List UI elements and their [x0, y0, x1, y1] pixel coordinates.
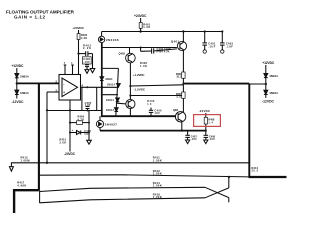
svg-text:+24VDC: +24VDC: [134, 14, 147, 18]
wire bias chain vertical: [116, 68, 119, 116]
svg-text:-24VDC: -24VDC: [199, 109, 211, 113]
svg-text:-: -: [63, 82, 64, 86]
label R412 1.00K: [153, 169, 162, 176]
wire supply column to R403: [78, 30, 80, 34]
capacitor C402 loop top: [79, 53, 86, 55]
label line D: [153, 192, 162, 199]
svg-text:2.2K: 2.2K: [81, 37, 87, 40]
wire sense line B: [39, 175, 249, 177]
resistor R407: [182, 92, 185, 98]
ground below C403a: [85, 70, 89, 74]
wire stub rail to cap line: [140, 48, 142, 52]
svg-text:1N914: 1N914: [20, 91, 29, 95]
node at R-C ladder left: [87, 110, 89, 112]
pot wiper arrow: [10, 163, 12, 167]
wire thin rail to +-12 node right: [249, 83, 265, 85]
wire R401 to +24 rail: [140, 28, 142, 31]
diode CR7 1N914: [264, 90, 268, 94]
svg-text:1.00K: 1.00K: [153, 172, 162, 176]
wire C405 loop right vertical: [96, 87, 98, 110]
svg-text:.1UF: .1UF: [83, 61, 90, 64]
wire C405 loop left vertical: [81, 87, 83, 110]
wire line D vertical to node B: [228, 177, 230, 188]
node gain tap: [46, 162, 48, 164]
svg-text:1.00M: 1.00M: [21, 159, 31, 163]
wire stub below thick corner: [39, 190, 41, 203]
svg-text:4.99K: 4.99K: [17, 183, 26, 187]
wire connector bus to bias chain: [102, 67, 119, 69]
wire C402 right vertical: [92, 54, 94, 69]
node Q401 collector on rail: [182, 30, 184, 32]
capacitor C406: [150, 108, 152, 111]
node bus/neg rail junction: [101, 115, 103, 117]
svg-text:-24VDC: -24VDC: [64, 152, 76, 156]
node +12VDC right: [262, 61, 275, 65]
svg-text:+1.2VDC: +1.2VDC: [133, 73, 145, 77]
label R402 1.0K: [140, 61, 148, 68]
wire sense line C: [40, 187, 205, 191]
wire R404 emitter node down to Q404: [182, 84, 184, 112]
svg-text:1: 1: [71, 61, 73, 65]
svg-text:+: +: [72, 128, 74, 132]
wire Q400 to driver bus thick: [101, 43, 103, 117]
wire feedback line pin3 net horizontal: [47, 110, 102, 112]
svg-text:.1UF: .1UF: [208, 45, 215, 49]
node C405 tap on output line: [86, 86, 88, 88]
transistor Q402 mid upper: [129, 48, 131, 54]
highlight red box R408: [194, 115, 221, 127]
svg-text:1.00K: 1.00K: [153, 159, 162, 163]
svg-text:-1.2VDC: -1.2VDC: [134, 87, 146, 91]
svg-text:GAIN = 1.12: GAIN = 1.12: [14, 15, 45, 20]
wire second rung to bias chain: [102, 94, 118, 96]
node supply/C402 junction: [77, 53, 79, 55]
diode CR404 bias chain: [116, 98, 120, 101]
transistor Q403 mid lower: [126, 99, 135, 108]
svg-text:4.7K: 4.7K: [78, 118, 85, 121]
wire supply column down to op-amp pin: [78, 40, 80, 75]
label +1.2VDC: [133, 73, 145, 77]
transistor Q404 bottom right: [175, 112, 185, 122]
wire CR6 to node: [265, 78, 267, 91]
transistor Q405 bottom left current source: [99, 116, 101, 120]
diode CR6 1N914: [264, 74, 268, 78]
wire bias chain to Q403 base: [117, 102, 126, 105]
svg-text:2.2K: 2.2K: [83, 46, 91, 50]
capacitor C407 to ground: [187, 131, 189, 136]
svg-text:1.00K: 1.00K: [153, 195, 162, 199]
wire line D diagonal: [205, 188, 229, 198]
label 2.2K 1W above C402 box: [83, 43, 92, 50]
capacitor C403a below label box: [86, 63, 88, 66]
wire Q402 emitter chain down to Q403: [129, 63, 131, 100]
ground ladder: [87, 140, 92, 144]
capacitor C408 to ground: [205, 131, 207, 136]
wire rail to Q401 collector: [182, 32, 184, 42]
diode CR406 on bias chain top: [117, 84, 121, 88]
svg-text:1N914: 1N914: [107, 84, 116, 87]
node -12VDC left: [12, 100, 25, 104]
wire line C stub end: [228, 198, 230, 203]
diode CR405b bias chain: [115, 108, 119, 111]
svg-text:2.0K: 2.0K: [60, 141, 67, 144]
svg-text:+12VDC: +12VDC: [12, 64, 25, 68]
diode CR1 1N914: [15, 74, 19, 78]
node mid rail/emitter junction: [182, 83, 184, 85]
title text: [6, 10, 75, 20]
label line C: [153, 181, 162, 188]
wire +24VDC to R401: [140, 18, 142, 23]
wire Q403 emitter to -24 rail: [129, 109, 131, 117]
ground C402: [90, 69, 95, 73]
svg-text:+: +: [63, 91, 65, 95]
wire thick bottom horizontal: [13, 189, 39, 191]
resistor R408: [204, 117, 207, 124]
svg-text:1N914: 1N914: [106, 99, 115, 102]
pin 7 stub op-amp: [64, 65, 66, 75]
wire feedback vertical pin3 down to gain line: [46, 92, 48, 163]
resistor R403 on supply column: [77, 34, 80, 40]
wire +12VDC to diode CR1: [16, 68, 18, 74]
svg-text:1.4: 1.4: [208, 121, 213, 124]
svg-text:1.0K: 1.0K: [140, 64, 147, 68]
label box C402 value: [82, 57, 91, 64]
wire thick mid rail to right: [183, 83, 249, 85]
capacitor C403 rung with diode symbol: [70, 132, 77, 134]
wire CR7 to -12VDC: [265, 94, 267, 97]
svg-text:-12VDC: -12VDC: [12, 100, 25, 104]
svg-text:Q401: Q401: [171, 39, 179, 43]
node +12VDC left: [12, 64, 25, 68]
wire thick vertical bus left: [38, 83, 40, 190]
node +24VDC top: [134, 14, 147, 18]
svg-text:+24VDC: +24VDC: [72, 26, 84, 30]
wire op-amp output pin 6: [81, 86, 102, 88]
label R417 4.99K: [17, 181, 26, 188]
svg-text:1N914: 1N914: [20, 74, 29, 78]
label R406 10: [147, 100, 155, 106]
capacitor C405: [86, 105, 90, 107]
svg-text:.1UF: .1UF: [226, 45, 233, 49]
svg-text:1UF: 1UF: [85, 104, 91, 107]
node rail/C404 stub junction: [140, 47, 142, 49]
label R410 25.5: [252, 167, 259, 173]
node feedback junction: [46, 109, 48, 111]
capacitor C404 line: [141, 50, 152, 52]
pin 1 stub op-amp: [72, 65, 74, 75]
svg-text:+12VDC: +12VDC: [262, 61, 275, 65]
transistor Q400 top-left current source: [101, 32, 103, 37]
node +24VDC op-amp supply: [72, 26, 84, 30]
node -12VDC right: [262, 100, 275, 104]
svg-text:10: 10: [147, 103, 152, 106]
svg-text:2N4937: 2N4937: [105, 123, 117, 127]
wire Q404 emitter to emitter rail: [181, 122, 183, 131]
wire op-amp pin 4 vertical down: [69, 100, 71, 152]
svg-text:1N914: 1N914: [106, 109, 115, 112]
svg-text:7: 7: [64, 61, 66, 65]
svg-text:1.0K: 1.0K: [143, 25, 150, 29]
resistor R416 rung: [70, 122, 77, 124]
node -24VDC right: [199, 109, 211, 113]
wire emitter rail: [100, 130, 206, 132]
svg-text:1.0: 1.0: [176, 96, 181, 99]
wire gain line A: [11, 162, 249, 164]
wire inner top rail: [102, 47, 177, 49]
transistor Q401 top right: [177, 41, 186, 50]
svg-text:1N914: 1N914: [105, 78, 113, 81]
wire output node rung to bias chain: [102, 86, 119, 88]
wire bias node to R407: [130, 95, 181, 97]
wire R408 to emitter rail: [205, 124, 207, 131]
svg-text:1UF: 1UF: [155, 112, 161, 115]
svg-text:.1UF: .1UF: [191, 138, 198, 141]
wire diode CR2 to -12VDC: [16, 95, 18, 99]
svg-text:P404 4.7K: P404 4.7K: [157, 50, 170, 54]
wire Q405 emitter to emitter rail: [99, 128, 101, 131]
wire +24V top rail: [102, 31, 223, 33]
label R411 1.00K: [153, 156, 162, 163]
wire -24VDC to R408: [205, 113, 207, 117]
op-amp U401 body: [59, 75, 81, 101]
svg-text:-12VDC: -12VDC: [262, 100, 275, 104]
wire thick output bus vertical right: [248, 84, 250, 177]
capacitor C402b with terminal: [221, 30, 223, 32]
diode CR403 on driver bus: [100, 77, 104, 80]
node IN junction: [16, 82, 18, 84]
svg-text:2N4036: 2N4036: [106, 38, 119, 42]
wire op-amp pin 3 input: [47, 91, 59, 93]
wire thick output horizontal bottom right: [249, 176, 287, 178]
svg-text:Q404: Q404: [173, 109, 179, 112]
label R415 2.0K: [60, 139, 67, 145]
node output to driver bus: [101, 86, 103, 88]
wire thick bottom-left vertical to edge: [13, 189, 15, 213]
label -1.2VDC: [134, 87, 146, 91]
wire Q401 emitter down: [182, 50, 184, 83]
capacitor C401 with terminal: [204, 30, 206, 32]
wire line C diagonal: [205, 187, 229, 197]
diode CR2 1N914: [15, 90, 19, 94]
node -24VDC below op-amp: [64, 152, 76, 156]
wire thick -24 rail: [102, 115, 176, 117]
svg-text:10.1: 10.1: [176, 76, 181, 79]
resistor R401: [139, 23, 142, 29]
wire sense line D: [40, 198, 205, 203]
node bus/connector junction: [101, 67, 103, 69]
svg-text:25.5: 25.5: [252, 170, 259, 173]
label R413 1.00M: [21, 156, 31, 163]
wire bias node to R404 bottom: [130, 85, 183, 86]
svg-text:1N914: 1N914: [269, 74, 278, 78]
svg-text:1.00K: 1.00K: [153, 184, 162, 188]
svg-text:.1UF: .1UF: [209, 138, 216, 141]
wire ladder right vertical: [88, 110, 90, 140]
wire +12VDC right to diode CR6: [265, 65, 267, 74]
wire node IN to diode CR2: [16, 83, 18, 90]
svg-text:Q402: Q402: [119, 52, 126, 56]
wire diode CR1 to node IN: [16, 78, 18, 84]
svg-text:1N914: 1N914: [269, 91, 278, 95]
node second rung on bus: [101, 94, 103, 96]
wire input bus horizontal thick to op-amp pin 2: [17, 82, 59, 84]
resistor R404 on emitter: [182, 72, 185, 78]
